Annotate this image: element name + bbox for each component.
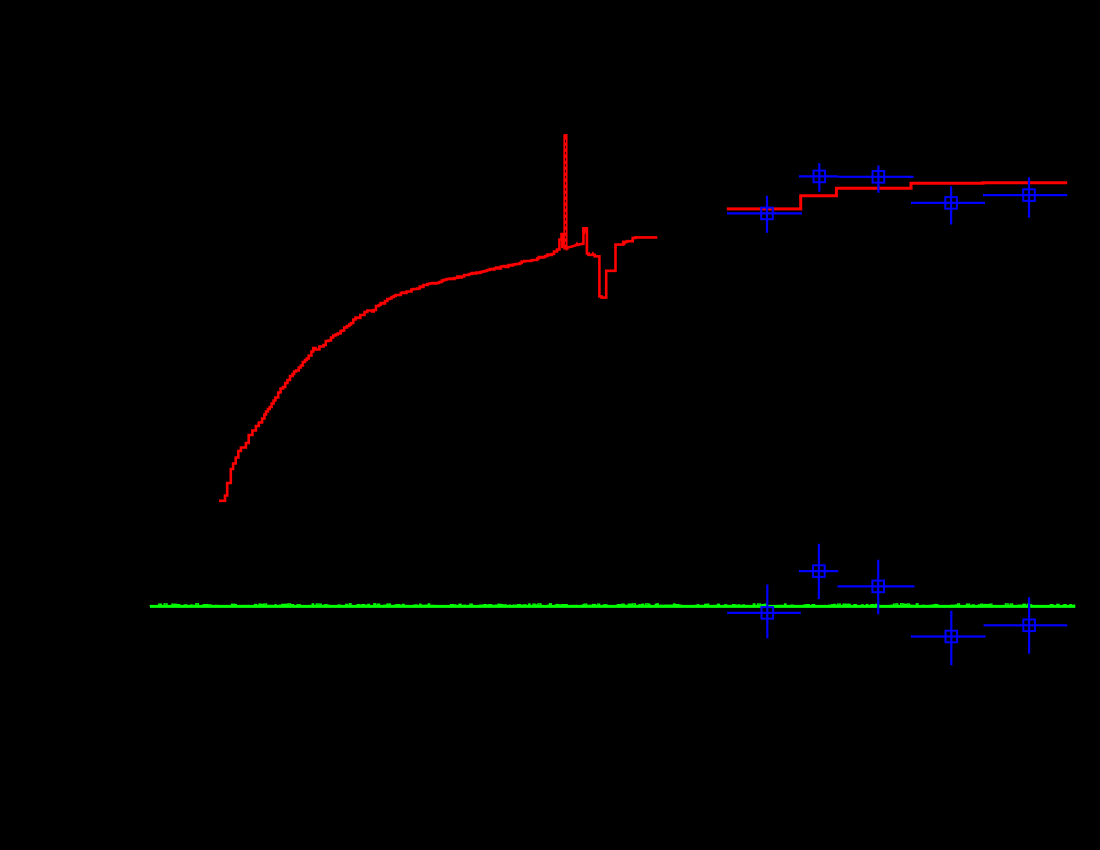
red model curve dataset 1 (stepped spectrum) (219, 234, 563, 501)
blue residual point 3 error bars (838, 560, 915, 615)
red post-spike structure with absorption dip (568, 228, 658, 297)
blue data point 3 error bars (838, 166, 913, 193)
green reference line (ratio=1) (150, 605, 1075, 608)
blue data point 5 error bars (983, 177, 1067, 218)
blue data point 4 error bars (911, 186, 985, 224)
blue data point 2 error bars (799, 163, 838, 192)
spike interior dark speckle (564, 140, 566, 246)
blue data point 2 square marker (814, 171, 826, 183)
red emission-line spike (563, 135, 567, 249)
red model step line dataset 2 (727, 183, 1067, 209)
blue data point 1 error bars (727, 196, 802, 233)
green residual fuzz trace (150, 604, 1075, 607)
blue residual point 4 square marker (946, 631, 958, 643)
blue data point 4 square marker (945, 197, 957, 209)
blue data point 3 square marker (873, 171, 885, 183)
blue data point 1 square marker (761, 208, 773, 220)
blue residual point 1 square marker (762, 607, 774, 619)
blue residual point 4 error bars (911, 611, 986, 666)
blue residual point 2 square marker (813, 565, 825, 577)
blue residual point 2 error bars (799, 544, 838, 599)
blue data point 5 square marker (1023, 189, 1035, 201)
blue residual point 3 square marker (872, 581, 884, 593)
blue residual point 5 square marker (1023, 620, 1035, 632)
blue residual point 5 error bars (984, 597, 1068, 653)
blue residual point 1 error bars (727, 585, 800, 639)
